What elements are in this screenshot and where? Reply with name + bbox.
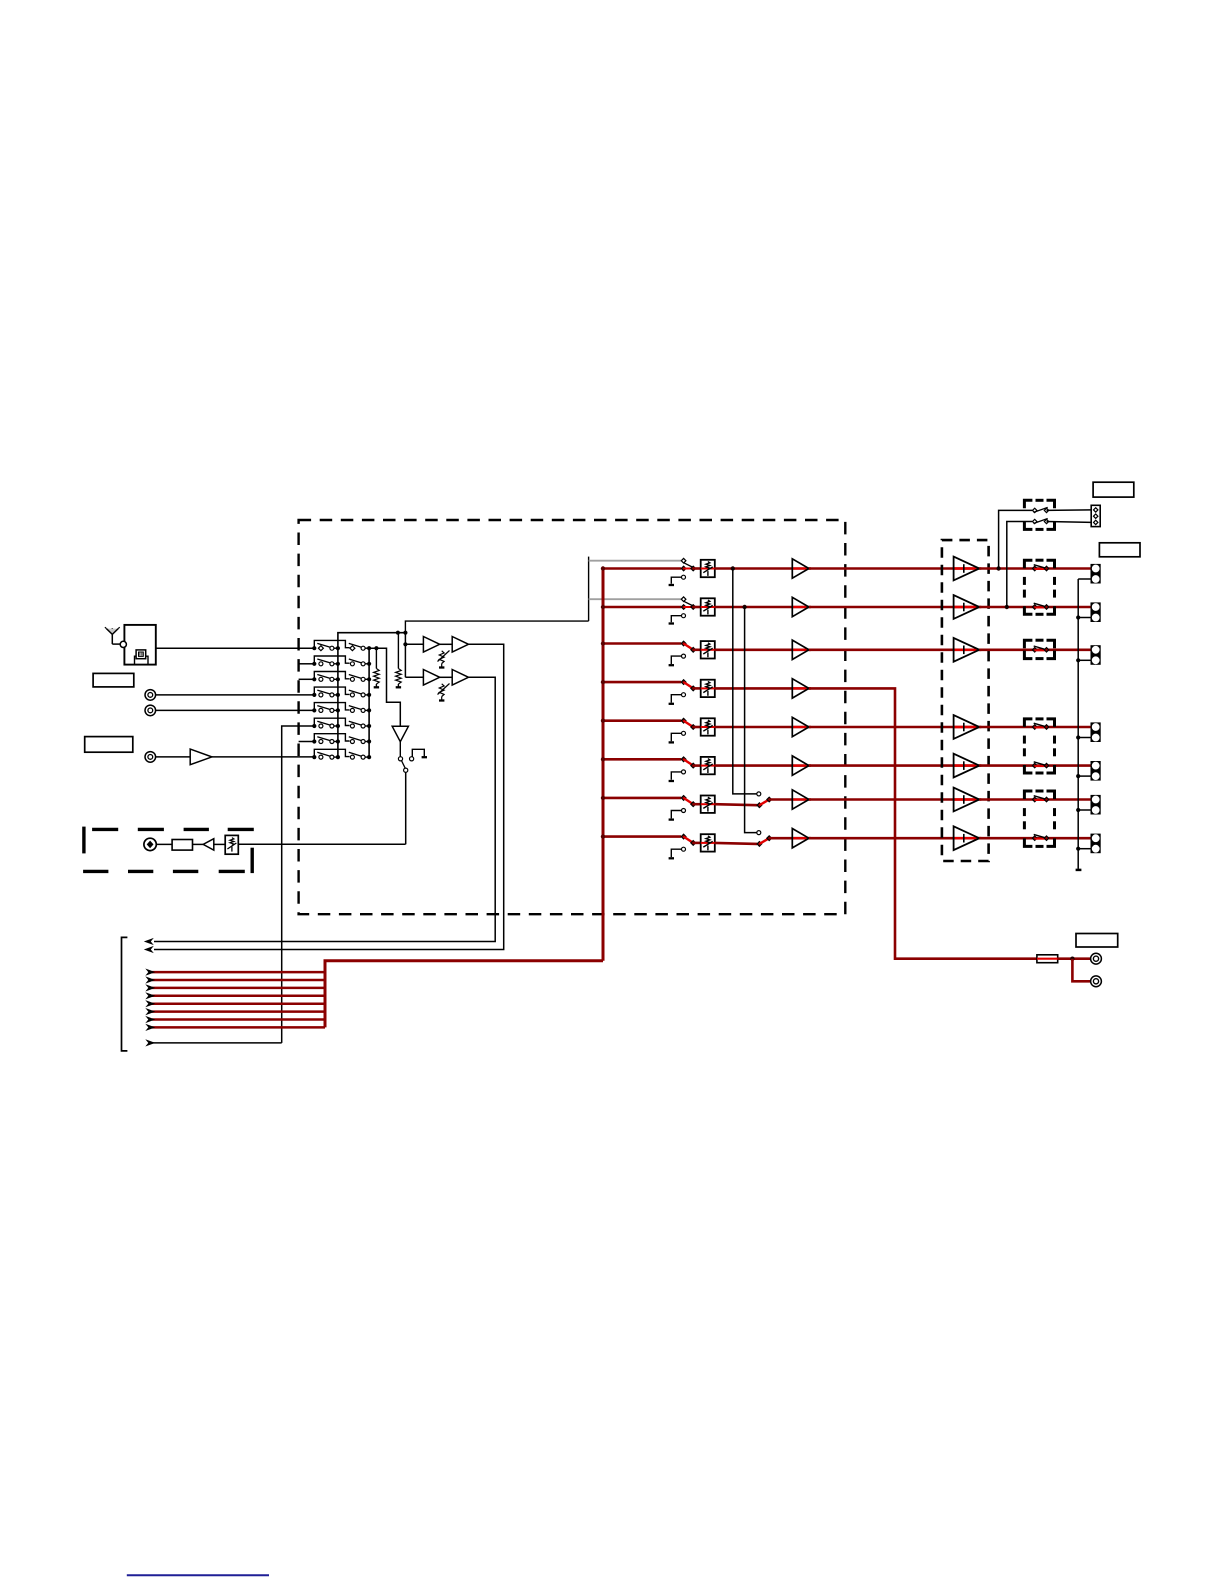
speaker relay RY3 (rear): [1024, 719, 1054, 773]
red harness trunk: [325, 961, 603, 1028]
power amp dashed enclosure: [942, 540, 989, 861]
wire: LV6 to amp: [715, 764, 793, 767]
wire: line out row5 to power amp: [809, 726, 954, 729]
harness line 5 (speaker feed): [145, 1000, 325, 1007]
speaker connector row7: [1091, 796, 1100, 814]
arrow: rec out R: [144, 946, 154, 953]
input selector stub row3: [299, 678, 315, 680]
selector switch S7a: [312, 734, 349, 744]
wire: tuner contact row2 (gray): [589, 598, 681, 600]
power amp PA2: [954, 595, 982, 619]
relay contact RY0-a: [1033, 507, 1092, 512]
level control box LV5: [693, 718, 715, 735]
relay contact row3: [1032, 646, 1048, 652]
line amp A14: [792, 679, 811, 698]
selector switch S6b: [349, 721, 371, 728]
power amp PA3: [954, 638, 982, 662]
wire: tuner contact row1 (gray): [589, 560, 681, 562]
selector switch S7b: [349, 737, 371, 744]
relay contact row5: [1032, 723, 1048, 729]
ground contact stub row1: [669, 575, 686, 585]
label box (left upper): [93, 673, 134, 687]
line amp A17: [792, 790, 811, 809]
main unit dashed enclosure: [299, 520, 846, 914]
power amp PA4: [954, 715, 982, 739]
mute switch S11: [681, 563, 695, 571]
wire: row4 to subwoofer out: [809, 688, 1037, 958]
wire: L out tap: [996, 510, 1032, 570]
wire: line out row8 to power amp: [809, 837, 954, 840]
wire: PA5 out: [979, 764, 1091, 767]
label box (speaker out): [1099, 543, 1140, 557]
buffer amp A5: [405, 670, 439, 686]
wire: bus tap row8: [601, 834, 681, 838]
wire: bus tap row1: [601, 566, 681, 570]
wire: A4 out to harness: [154, 644, 504, 949]
level control box LV6: [693, 757, 715, 774]
speaker ground trunk: [1077, 579, 1079, 869]
mute switch S13: [681, 641, 695, 652]
wire: speaker return row5: [1076, 735, 1091, 739]
speaker connector row1: [1091, 565, 1100, 583]
wire: speaker return row7: [1076, 808, 1091, 812]
rec selector switch S19: [757, 792, 793, 808]
wire: bus tap row2: [601, 605, 681, 609]
ground (R2): [396, 686, 401, 688]
label box (sub out): [1076, 934, 1118, 948]
selector switch S8b: [349, 752, 371, 759]
wire: row2 tap to rec selector R: [742, 605, 756, 833]
mute switch S15: [681, 718, 695, 729]
wire: row1 tap to rec selector L: [731, 566, 757, 794]
level control box LV4: [693, 680, 715, 697]
line amp A18: [792, 829, 811, 848]
selector switch S8a: [312, 749, 349, 759]
wire: speaker return row3: [1076, 658, 1091, 662]
mute switch S12: [681, 601, 695, 609]
mute switch S14: [681, 680, 695, 691]
selector switch S2b: [349, 659, 371, 666]
ground contact stub row5: [669, 731, 686, 742]
wire: J3 to selector row5: [156, 709, 315, 711]
wire: LV2 to amp: [715, 606, 793, 609]
input selector stub row7: [299, 741, 315, 743]
wire: bus tap row4: [601, 680, 681, 684]
speaker connector row3: [1091, 646, 1100, 664]
ground stub (S9): [412, 749, 427, 757]
red source bus: [602, 569, 605, 961]
wire: bus tap row5: [601, 719, 681, 723]
selector switch S2a: [312, 656, 349, 666]
ground (VR2): [439, 699, 444, 701]
ground contact stub row6: [669, 770, 686, 781]
level control box LV3: [693, 641, 715, 658]
selector switch S6a: [312, 718, 349, 728]
buffer amp A1: [156, 749, 212, 765]
line amp A13: [792, 640, 811, 659]
wire: CD box out to mode switch (crosses row6 feed): [238, 843, 405, 845]
mode switch S9: [398, 742, 413, 845]
selector switch S1a: [312, 640, 349, 650]
mute switch S17: [681, 796, 695, 807]
wire: LV8 to rec selector: [715, 843, 757, 844]
contact: tuner row1: [681, 558, 686, 563]
line amp A16: [792, 756, 811, 775]
line amp A15: [792, 717, 811, 736]
selector switch S4a: [312, 687, 349, 697]
arrow: rec out L: [144, 938, 154, 945]
level control box LV7: [693, 796, 715, 813]
iPod dock unit box: [120, 625, 156, 665]
wire: R out tap: [1005, 522, 1033, 610]
selector bus B: [368, 648, 370, 757]
power amp PA5: [954, 754, 982, 778]
level control box LV2: [693, 598, 715, 615]
relay contact RY0-b: [1033, 519, 1092, 524]
level control box LV8: [693, 834, 715, 851]
rec selector switch S20: [757, 831, 793, 847]
relay contact row2: [1032, 603, 1048, 609]
ground (VR1): [439, 666, 444, 668]
wire: tuner feed vertical: [405, 557, 588, 633]
buffer amp A4: [440, 637, 469, 653]
wire: PA7 out: [979, 837, 1091, 840]
wire: PA3 out: [979, 648, 1091, 651]
wire: CD feed up to selector row6: [282, 726, 315, 1043]
wire: PA6 out: [979, 798, 1091, 801]
speaker connector row2: [1091, 603, 1100, 621]
power amp PA1: [954, 557, 982, 581]
wire: line out row2 to power amp: [809, 606, 954, 609]
harness line 7 (speaker feed): [145, 1016, 325, 1023]
harness line 9 (CD bus): [145, 1039, 281, 1046]
buffer amp A2 (left pointing): [193, 839, 214, 850]
series resistor box R10: [1037, 955, 1058, 963]
inverter amp A7: [392, 726, 408, 741]
wire: speaker return row2: [1076, 615, 1091, 619]
RCA jack J2 (aux L): [145, 690, 156, 701]
harness line 3 (speaker feed): [145, 984, 325, 991]
label box (top right): [1093, 482, 1134, 497]
filter box FL1: [156, 840, 192, 851]
RCA jack J4 (mic in): [145, 752, 156, 763]
wire: LV1 to amp: [715, 567, 793, 570]
CD changer connector J5: [144, 838, 156, 850]
CD changer dashed enclosure: [83, 827, 254, 874]
wire: speaker return row1: [1078, 578, 1091, 580]
input selector stub row2: [299, 663, 315, 665]
RCA jack J3 (aux R): [145, 705, 156, 716]
level control box LV1: [693, 560, 715, 577]
resistor R1: [374, 648, 380, 686]
label box (left lower): [85, 737, 133, 753]
mute switch S16: [681, 757, 695, 768]
harness line 6 (speaker feed): [145, 1008, 325, 1015]
power amp PA7: [954, 826, 982, 850]
speaker connector row8: [1091, 834, 1100, 852]
line amp A12: [792, 597, 811, 616]
wire: LV4 to amp: [715, 687, 793, 690]
wire: speaker return row8: [1076, 847, 1091, 851]
selector switch S3a: [312, 672, 349, 682]
wire: LV5 to amp: [715, 726, 793, 729]
volume pot VR1: [438, 651, 450, 667]
speaker relay RY1 (front): [1024, 560, 1054, 614]
wire: speaker return row6: [1076, 774, 1091, 778]
wire: LV3 to amp: [715, 648, 793, 651]
relay contact row6: [1032, 762, 1048, 768]
ground contact stub row2: [669, 614, 686, 624]
wire: PA2 out: [979, 606, 1091, 609]
level control box LV9: [214, 835, 239, 854]
harness line 4 (speaker feed): [145, 992, 325, 999]
selector switch S4b: [349, 690, 371, 697]
selector bus A: [338, 631, 408, 757]
wire: dock out to selector row1: [156, 647, 314, 649]
speaker connector row5: [1091, 723, 1100, 741]
mute switch S18: [681, 834, 695, 845]
relay contact row7: [1032, 796, 1048, 802]
wire: bus B to inverter: [369, 646, 400, 726]
ground contact stub row8: [669, 847, 686, 858]
selector switch S1b: [349, 643, 371, 650]
speaker relay RY2 (center): [1024, 640, 1054, 658]
speaker relay RY4 (surround): [1024, 791, 1054, 846]
wire: PA4 out: [979, 726, 1091, 729]
selector switch S3b: [349, 675, 371, 682]
speaker connector row6: [1091, 762, 1100, 780]
resistor R2: [396, 633, 402, 687]
RCA jack J10 (sub L): [1091, 953, 1102, 964]
wire: line out row6 to power amp: [809, 764, 954, 767]
relay contact row1: [1032, 565, 1048, 571]
ground contact stub row7: [669, 809, 686, 820]
ground (speaker common): [1076, 869, 1082, 872]
RCA jack J11 (sub R): [1091, 976, 1102, 987]
wire: bus tap row6: [601, 757, 681, 761]
harness line 1 (speaker feed): [145, 969, 325, 976]
line amp A11: [792, 559, 811, 578]
power amp PA6: [954, 788, 982, 812]
wire: bus tap row3: [601, 641, 681, 645]
dock connector icon: [135, 650, 149, 664]
contact: tuner row2: [681, 597, 686, 602]
wire: line out row3 to power amp: [809, 648, 954, 651]
ground contact stub row4: [669, 693, 686, 704]
ground (R1): [374, 686, 379, 688]
wire: R10 to RCA jacks: [1058, 957, 1091, 982]
wire: line out row7 to power amp: [809, 798, 954, 801]
harness line 8 (speaker feed): [145, 1024, 325, 1031]
footer rule: [127, 1574, 269, 1576]
connector CN1 (line out): [1091, 505, 1100, 526]
line out relay RY0: [1024, 500, 1054, 529]
node: buffer input stem: [403, 633, 407, 678]
wire: bus tap row7: [601, 796, 681, 800]
selector switch S5b: [349, 706, 371, 713]
wire: LV7 to rec selector: [715, 804, 757, 805]
volume pot VR2: [438, 684, 450, 700]
relay contact row8: [1032, 834, 1048, 840]
buffer amp A6: [440, 670, 469, 686]
selector switch S5a: [312, 703, 349, 713]
buffer amp A3: [405, 637, 439, 653]
wire: J2 to selector row4: [156, 694, 315, 696]
wire: A1 out to selector row8: [212, 756, 314, 758]
wire: A6 out to harness: [154, 677, 495, 941]
harness line 2 (speaker feed): [145, 976, 325, 983]
antenna ANT1: [105, 627, 120, 644]
ground contact stub row3: [669, 654, 686, 665]
wire: line out row1 to power amp: [809, 567, 954, 570]
wire: PA1 out: [979, 567, 1091, 570]
harness bracket: [122, 937, 128, 1051]
